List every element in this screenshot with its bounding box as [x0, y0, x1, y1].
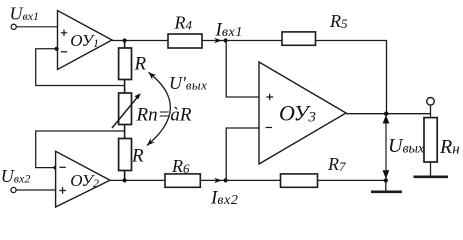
ground (load) [414, 176, 449, 179]
plus sign OU3 [266, 94, 273, 101]
svg-text:R: R [134, 54, 147, 75]
op-amp U3 (ОУ3) [259, 62, 346, 164]
load resistor Rн [424, 118, 437, 162]
svg-text:R4: R4 [174, 13, 193, 33]
wire OU1 feedback (inverting input to R/Rn tap) [36, 49, 125, 86]
svg-text:Iвх2: Iвх2 [210, 188, 238, 209]
measuring arc U'вых [147, 72, 170, 145]
wire node Iвх2 up to OU3 - input [226, 128, 259, 180]
junction dot node Iвх2 [224, 178, 228, 182]
resistor R (top) [119, 48, 132, 80]
svg-text:R6: R6 [171, 156, 190, 176]
wire R6 to node Iвх2 [200, 179, 226, 181]
minus sign OU3 [266, 127, 272, 129]
op-amp U2 (ОУ2) [56, 151, 110, 207]
wire Uвх2 to OU2 + input [16, 189, 56, 191]
svg-text:R: R [131, 146, 144, 167]
rheostat Rn body [119, 93, 132, 125]
minus sign OU2 [59, 166, 65, 168]
svg-text:Iвх1: Iвх1 [215, 20, 243, 41]
svg-text:U'вых: U'вых [169, 73, 207, 93]
minus sign OU1 [61, 51, 67, 53]
svg-text:Uвых: Uвых [388, 135, 425, 157]
wire OU3 output [346, 113, 431, 115]
junction dot ground node [384, 178, 388, 182]
resistor R6 [165, 174, 200, 187]
plus sign OU1 [61, 30, 67, 36]
svg-text:Rн: Rн [439, 136, 460, 158]
wire Uвх1 to OU1 + input [16, 26, 57, 28]
wire R4 to node Iвх1 [202, 40, 226, 42]
wire R7 to ground node [318, 179, 386, 181]
wire node Iвх1 to R5 [226, 40, 282, 42]
resistor R (bottom) [119, 139, 132, 171]
wire OU1 output to R4 [112, 40, 168, 42]
svg-text:Uвх2: Uвх2 [1, 166, 31, 186]
junction dot output node [384, 112, 388, 116]
svg-text:Uвх1: Uвх1 [10, 4, 40, 24]
current arrow Iвх1 [214, 38, 222, 43]
wire OU2 feedback (tap to inverting input) [36, 131, 125, 168]
svg-text:R7: R7 [327, 154, 346, 174]
op-amp U1 (ОУ1) [58, 11, 113, 70]
junction dot chain top [123, 38, 127, 42]
junction dot OU1 inverting input [55, 47, 59, 51]
wire R5 to output node [316, 41, 387, 114]
resistor R5 [282, 32, 316, 45]
wire node Iвх1 down to OU3 + input [226, 41, 259, 98]
svg-text:Rn=àR: Rn=àR [136, 105, 192, 126]
input terminal Uвх1 [11, 24, 16, 29]
wire OU2 output to R6 [110, 179, 165, 181]
wire resistor chain vertical [124, 41, 126, 181]
current arrow Iвх2 [214, 178, 222, 183]
rheostat arrow [112, 96, 138, 128]
resistor R7 [281, 174, 318, 187]
junction dot OU2 inverting input [54, 166, 58, 170]
wire node Iвх2 to R7 [226, 179, 281, 181]
junction dot node Iвх1 [224, 38, 228, 42]
plus sign OU2 [59, 187, 65, 193]
ground (bottom node) [385, 180, 387, 191]
junction dot chain bottom [123, 178, 127, 182]
output terminal [427, 98, 435, 106]
wire Rн to ground [430, 162, 432, 176]
wire output terminal to Rн [430, 105, 432, 118]
Uвых measuring arrow [385, 114, 387, 180]
svg-text:R5: R5 [329, 11, 348, 31]
resistor R4 [168, 34, 202, 48]
input terminal Uвх2 [11, 187, 16, 192]
